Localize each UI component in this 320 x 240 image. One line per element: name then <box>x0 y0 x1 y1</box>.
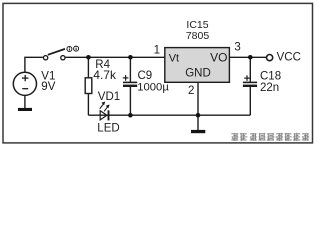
svg-text:7805: 7805 <box>186 30 210 42</box>
svg-text:VCC: VCC <box>277 51 301 63</box>
svg-text:3: 3 <box>234 42 240 54</box>
svg-text:9V: 9V <box>41 81 55 93</box>
svg-text:VD1: VD1 <box>98 91 120 103</box>
svg-text:4.7k: 4.7k <box>93 68 117 82</box>
svg-text:1: 1 <box>154 44 160 56</box>
svg-text:Vt: Vt <box>169 53 179 65</box>
svg-text:C9: C9 <box>138 70 153 82</box>
svg-text:GND: GND <box>185 68 211 80</box>
svg-text:1000µ: 1000µ <box>137 81 169 93</box>
svg-text:22n: 22n <box>260 82 279 94</box>
svg-text:VO: VO <box>210 51 227 65</box>
svg-text:2: 2 <box>188 85 194 97</box>
svg-text:LED: LED <box>97 122 119 134</box>
svg-text:C18: C18 <box>260 71 281 83</box>
